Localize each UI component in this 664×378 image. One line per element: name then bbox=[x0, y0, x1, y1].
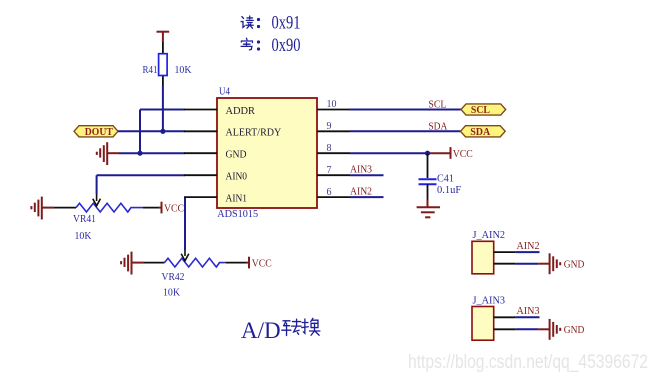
pin 2 of J_AIN2 bbox=[494, 263, 516, 265]
svg-text:VCC: VCC bbox=[453, 149, 473, 160]
pin 1 of J_AIN3 bbox=[494, 316, 516, 318]
wire VR42 right to VCC bbox=[246, 262, 249, 264]
wire AIN3 stub (pin7) bbox=[350, 174, 384, 176]
svg-text:R41: R41 bbox=[143, 65, 158, 76]
pin 8 (right) bbox=[317, 152, 350, 154]
wire to GND (J_AIN3) bbox=[515, 328, 538, 330]
resistor R41 bbox=[159, 42, 168, 86]
pin 2 of J_AIN3 bbox=[494, 328, 516, 330]
ground symbol VR42 (pointing left) bbox=[121, 252, 144, 275]
svg-text:0x91: 0x91 bbox=[272, 13, 301, 34]
note text 写：0x90 bbox=[241, 38, 252, 50]
svg-text:8: 8 bbox=[327, 143, 332, 154]
pin ADDR (left) bbox=[184, 109, 217, 111]
pin 9 (right) bbox=[317, 130, 350, 132]
svg-text:10K: 10K bbox=[175, 65, 192, 76]
svg-text:0.1uF: 0.1uF bbox=[437, 185, 461, 196]
ground symbol at GND pin (pointing left) bbox=[97, 142, 119, 165]
glyph 换 bbox=[302, 318, 320, 335]
svg-text:0x90: 0x90 bbox=[272, 35, 301, 56]
pin 6 (right) bbox=[317, 196, 350, 198]
svg-text:AIN0: AIN0 bbox=[226, 172, 248, 183]
junction dot at GND wire bbox=[137, 151, 142, 156]
svg-text:VCC: VCC bbox=[164, 203, 184, 214]
svg-text:9: 9 bbox=[327, 121, 332, 132]
VCC power symbol (VR41) bbox=[162, 202, 185, 215]
port SCL bbox=[461, 104, 506, 116]
VCC power symbol (VR42) bbox=[249, 257, 272, 270]
junction dot at ALERT/RDY wire bbox=[160, 129, 165, 134]
svg-text:SDA: SDA bbox=[470, 127, 490, 138]
svg-text:10K: 10K bbox=[75, 231, 92, 242]
svg-text:VR41: VR41 bbox=[73, 214, 96, 225]
wire AIN3 stub at connector bbox=[515, 316, 539, 318]
wire SDA bbox=[350, 130, 461, 132]
svg-text:ALERT/RDY: ALERT/RDY bbox=[226, 128, 282, 139]
pin 1 of J_AIN2 bbox=[494, 251, 516, 253]
pin AIN0 (left) bbox=[184, 174, 217, 176]
VCC power symbol (pin8) bbox=[451, 147, 473, 160]
pin AIN1 (left) bbox=[184, 196, 217, 198]
wire ADDR horizontal bbox=[140, 109, 185, 111]
svg-text:C41: C41 bbox=[437, 173, 454, 184]
wire AIN2 stub at connector bbox=[515, 251, 539, 253]
svg-text:AIN2: AIN2 bbox=[517, 241, 540, 252]
ground symbol J_AIN2 (pointing right) bbox=[550, 253, 561, 274]
junction dot pin8 bbox=[425, 151, 430, 156]
svg-text:DOUT: DOUT bbox=[85, 127, 113, 138]
svg-text:J_AIN3: J_AIN3 bbox=[473, 296, 506, 307]
connector J_AIN2 bbox=[472, 230, 505, 274]
svg-text:AIN3: AIN3 bbox=[517, 306, 540, 317]
svg-text:6: 6 bbox=[327, 187, 332, 198]
port SDA bbox=[461, 126, 506, 138]
wire ADDR to GND vertical bbox=[139, 110, 141, 154]
VCC power bar above R41 bbox=[157, 32, 170, 42]
pin GND (left) bbox=[184, 152, 217, 154]
capacitor C41 bbox=[419, 153, 437, 199]
svg-text:GND: GND bbox=[226, 150, 247, 161]
svg-text:J_AIN2: J_AIN2 bbox=[473, 230, 506, 241]
pin 10 (right) bbox=[317, 109, 350, 111]
connector J_AIN3 bbox=[472, 296, 505, 341]
svg-text:AIN2: AIN2 bbox=[350, 187, 372, 198]
pin 7 (right) bbox=[317, 174, 350, 176]
svg-text:U4: U4 bbox=[219, 87, 231, 98]
svg-text:SDA: SDA bbox=[428, 121, 447, 132]
svg-text:10K: 10K bbox=[163, 288, 180, 299]
wire VR41 right to VCC bbox=[159, 207, 162, 209]
glyph 转 bbox=[282, 319, 301, 335]
wire to GND (J_AIN2) bbox=[515, 263, 538, 265]
svg-text:A/D: A/D bbox=[241, 318, 281, 343]
ground symbol below C41 bbox=[417, 207, 440, 217]
port DOUT bbox=[74, 126, 118, 138]
svg-text:VCC: VCC bbox=[252, 258, 272, 269]
svg-text:AIN3: AIN3 bbox=[350, 165, 372, 176]
wire DOUT to ALERT/RDY pin bbox=[118, 130, 185, 132]
wire SCL bbox=[350, 109, 461, 111]
svg-text:SCL: SCL bbox=[428, 100, 446, 111]
wire GND pin bbox=[119, 152, 185, 154]
svg-text:ADS1015: ADS1015 bbox=[217, 209, 258, 220]
wire pin8 to VCC bbox=[350, 152, 428, 154]
wire R41 bottom to ALERT/RDY line bbox=[162, 86, 164, 131]
wire cap to ground bbox=[427, 200, 429, 207]
potentiometer VR41 bbox=[54, 194, 159, 212]
svg-text:AIN1: AIN1 bbox=[226, 193, 248, 204]
svg-text:VR42: VR42 bbox=[162, 272, 185, 283]
svg-text:GND: GND bbox=[564, 260, 585, 271]
chip U4 body bbox=[217, 98, 317, 208]
svg-text:GND: GND bbox=[564, 325, 585, 336]
svg-text:ADDR: ADDR bbox=[226, 106, 256, 117]
ground symbol J_AIN3 (pointing right) bbox=[550, 319, 561, 340]
wire AIN0 bbox=[97, 175, 185, 194]
svg-text:7: 7 bbox=[327, 165, 332, 176]
svg-text:10: 10 bbox=[327, 99, 337, 110]
note text 读：0x91 bbox=[241, 16, 253, 28]
pin ALERT/RDY (left) bbox=[184, 130, 217, 132]
wire AIN1 bbox=[184, 197, 186, 250]
potentiometer VR42 bbox=[144, 250, 246, 267]
wire AIN2 stub (pin6) bbox=[350, 196, 384, 198]
ground symbol VR41 (pointing left) bbox=[31, 197, 54, 220]
svg-text:https://blog.csdn.net/qq_45396: https://blog.csdn.net/qq_45396672 bbox=[408, 352, 648, 373]
svg-text:SCL: SCL bbox=[471, 105, 490, 116]
